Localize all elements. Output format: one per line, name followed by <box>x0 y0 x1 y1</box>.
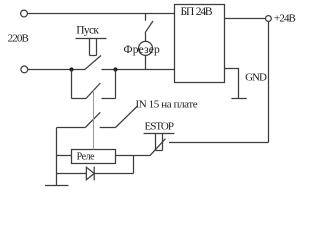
wire node B down <box>115 70 117 99</box>
wire top 220V to PSU <box>27 13 174 15</box>
relay contact K1.1 self-hold <box>72 98 116 100</box>
terminal +24V <box>266 16 272 22</box>
wire ground rail vertical <box>56 128 58 186</box>
wire milling branch top <box>145 14 147 21</box>
wire node A down <box>71 70 73 99</box>
svg-text:Фрезер: Фрезер <box>124 44 161 56</box>
wire +24V to ESTOP <box>169 142 269 144</box>
switch milling contact diagonal <box>145 21 153 33</box>
pushbutton SB1 actuator <box>76 39 107 56</box>
wire diode row left <box>57 173 87 175</box>
terminal 220V line N <box>21 66 28 73</box>
node B junction <box>113 67 117 71</box>
wire lower left segment <box>28 69 86 71</box>
diode VD1 <box>86 167 94 179</box>
svg-text:220В: 220В <box>8 32 29 44</box>
svg-text:IN 15 на плате: IN 15 на плате <box>136 99 198 111</box>
wire +24V down right side <box>268 22 270 143</box>
relay contact K1.2 IN15 <box>57 127 116 129</box>
ground main bar <box>45 185 69 187</box>
svg-text:GND: GND <box>245 72 267 84</box>
svg-text:ESTOP: ESTOP <box>145 121 175 133</box>
terminal 220V line L <box>21 10 28 17</box>
wire PSU +24V out <box>225 18 266 20</box>
relay K1 coil box <box>72 150 116 164</box>
ground PSU bar <box>231 98 246 100</box>
motor M mill circle <box>139 41 153 55</box>
svg-text:+24В: +24В <box>274 13 296 25</box>
wire diode row right <box>94 173 133 175</box>
switch ESTOP contact diagonal <box>150 139 166 156</box>
node A junction <box>69 67 73 71</box>
switch SB1 Pusk contact diagonal <box>85 56 101 70</box>
PSU U1 box <box>175 5 225 83</box>
svg-text:Реле: Реле <box>77 151 96 162</box>
wire ESTOP to relay coil <box>116 155 151 157</box>
pushbutton ESTOP actuator <box>144 134 175 151</box>
leader line to IN15 label <box>116 106 138 128</box>
svg-text:24В: 24В <box>196 6 213 18</box>
wire PSU GND out <box>225 69 239 99</box>
link line relay mechanical <box>93 91 95 150</box>
svg-text:БП: БП <box>181 6 195 18</box>
wire lower right segment to PSU <box>102 69 175 71</box>
wire coil left to ground rail <box>57 155 72 157</box>
wire motor to lower wire <box>145 55 147 69</box>
svg-text:Пуск: Пуск <box>76 24 99 36</box>
wire switch to motor <box>145 33 147 42</box>
wire diode branch down <box>133 156 135 174</box>
